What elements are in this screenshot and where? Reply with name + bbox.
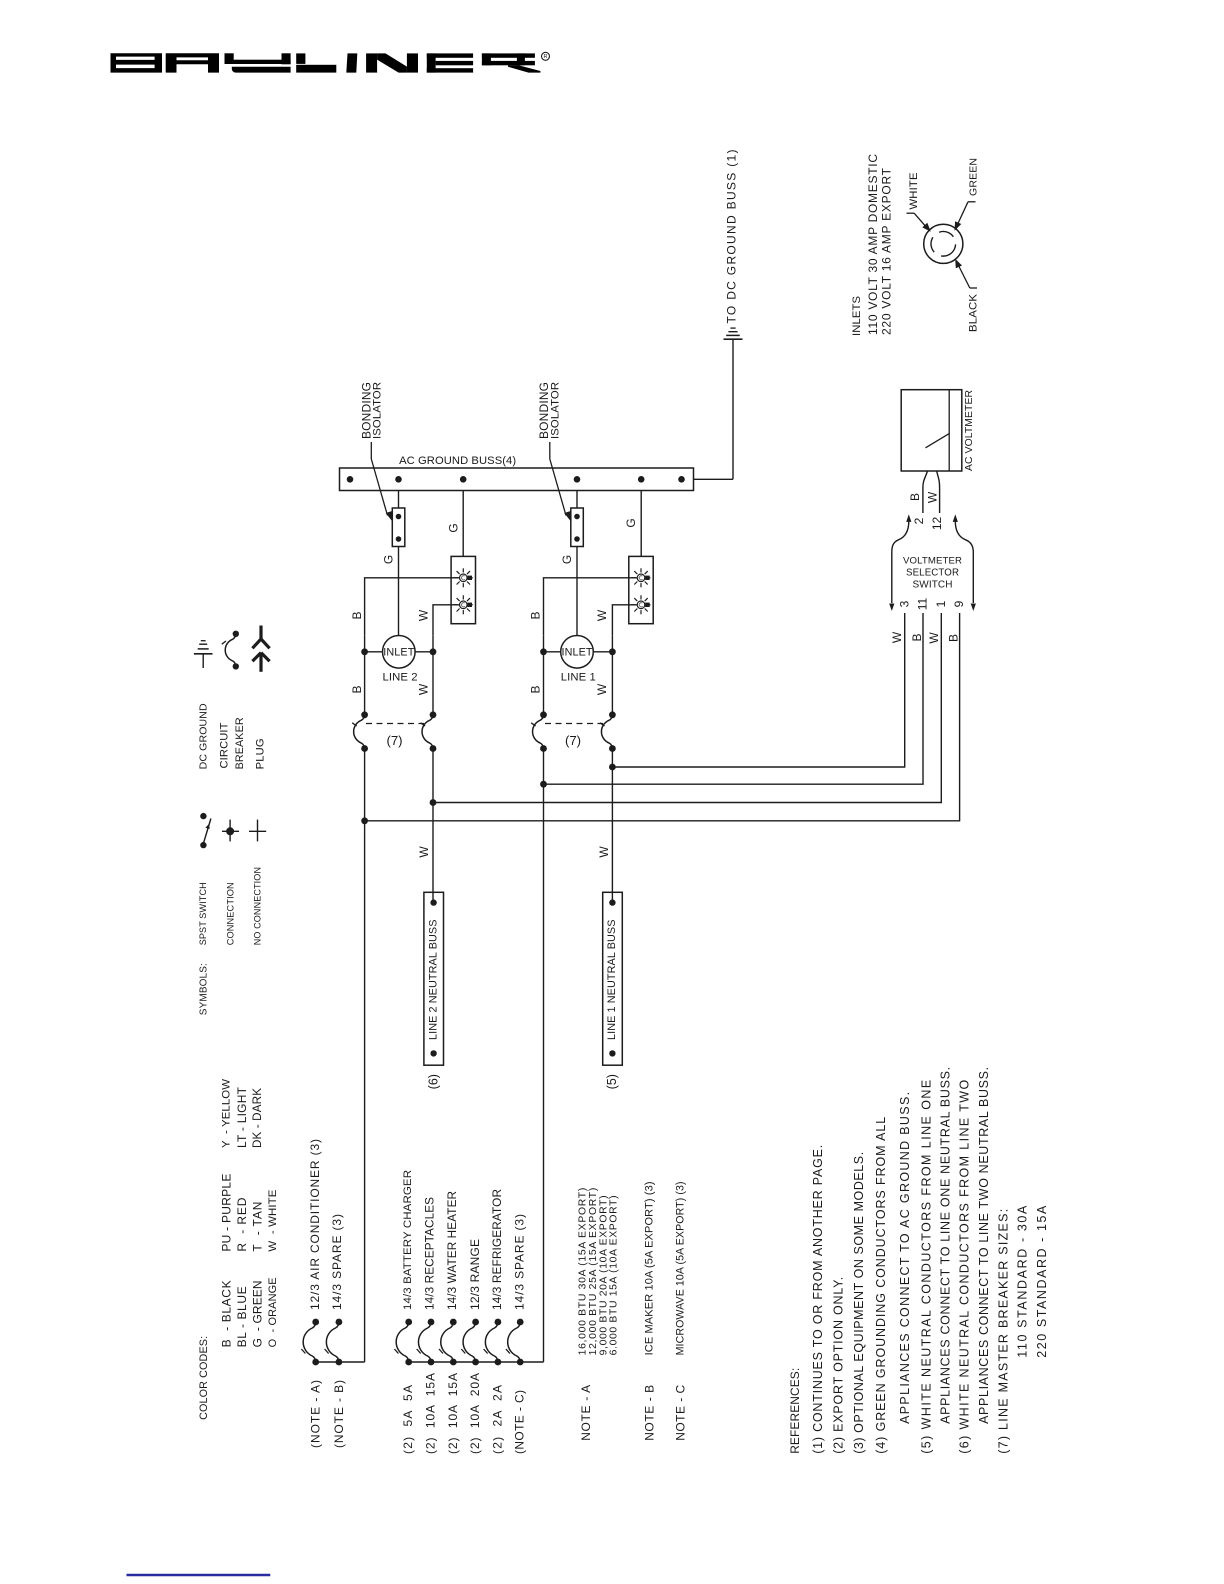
- wire buss to isolator (line 1): [576, 491, 578, 509]
- breaker tie (dashed, line 1): [545, 723, 603, 725]
- wire W line 1 to breaker: [611, 635, 613, 715]
- svg-text:MICROWAVE 10A (5A EXPORT) (3): MICROWAVE 10A (5A EXPORT) (3): [674, 1181, 686, 1355]
- svg-text:APPLIANCES CONNECT TO LINE TWO: APPLIANCES CONNECT TO LINE TWO NEUTRAL B…: [977, 1067, 991, 1424]
- group 1 feed bar from B line 2: [316, 1361, 365, 1363]
- junction W2 to voltmeter pin 1: [430, 799, 437, 806]
- legend circuit breaker symbol: [222, 631, 239, 670]
- logo registered trademark: [542, 52, 550, 60]
- svg-text:SELECTOR: SELECTOR: [906, 568, 959, 579]
- bonding isolator (line 1): [571, 508, 584, 547]
- wire B line 2 vertical to panel feed: [364, 749, 366, 1363]
- circuit breaker air conditioner: [301, 1319, 319, 1366]
- svg-text:R: R: [544, 54, 548, 60]
- svg-text:W: W: [417, 846, 431, 858]
- svg-text:TO DC GROUND BUSS (1): TO DC GROUND BUSS (1): [725, 150, 739, 324]
- wire inlet stubs line 2 with junctions: [361, 648, 436, 655]
- legend label CIRCUIT BREAKER: [218, 717, 245, 769]
- wire pin 9 horizontal: [365, 613, 960, 821]
- svg-text:W - WHITE: W - WHITE: [267, 1189, 279, 1251]
- svg-text:B: B: [350, 685, 364, 693]
- svg-text:APPLIANCES CONNECT TO AC GROUN: APPLIANCES CONNECT TO AC GROUND BUSS.: [898, 1092, 912, 1424]
- label BONDING ISOLATOR (line 1): [537, 382, 561, 439]
- wire W line 1 top (to lamp): [612, 605, 637, 636]
- svg-text:14/3 WATER HEATER: 14/3 WATER HEATER: [446, 1191, 459, 1310]
- svg-text:LT - LIGHT: LT - LIGHT: [235, 1086, 249, 1148]
- svg-text:Y - YELLOW: Y - YELLOW: [220, 1079, 232, 1148]
- lamp L1 (line 2): [454, 568, 473, 587]
- wire voltmeter terminal B: [923, 471, 928, 513]
- svg-text:11: 11: [916, 597, 930, 610]
- lamp L2 (line 2): [454, 595, 473, 614]
- svg-text:B: B: [350, 611, 364, 619]
- svg-text:(2) 10A 15A: (2) 10A 15A: [446, 1373, 460, 1454]
- svg-text:14/3 BATTERY CHARGER: 14/3 BATTERY CHARGER: [402, 1170, 414, 1310]
- wire to DC ground buss: [732, 339, 734, 479]
- svg-text:ISOLATOR: ISOLATOR: [372, 382, 384, 439]
- circuit breaker range: [461, 1319, 479, 1366]
- svg-text:NO CONNECTION: NO CONNECTION: [253, 867, 263, 945]
- svg-text:INLETS: INLETS: [851, 296, 863, 336]
- svg-text:WHITE: WHITE: [908, 172, 920, 209]
- svg-text:(NOTE - C): (NOTE - C): [513, 1390, 527, 1454]
- wire W line 2 top (to lamp): [433, 605, 459, 636]
- svg-text:(7) LINE MASTER BREAKER SIZES:: (7) LINE MASTER BREAKER SIZES:: [996, 1209, 1010, 1454]
- label WHITE with leader: [907, 172, 931, 232]
- svg-text:SPST SWITCH: SPST SWITCH: [198, 882, 208, 945]
- svg-text:(NOTE - B): (NOTE - B): [332, 1380, 346, 1448]
- svg-text:NOTE - C: NOTE - C: [673, 1384, 687, 1440]
- leader arrow to isolator (line 2): [371, 442, 392, 521]
- wire W line 2 vertical to neutral buss 2: [432, 749, 434, 903]
- svg-text:12/3 RANGE: 12/3 RANGE: [468, 1239, 482, 1310]
- wire inlet stubs line 1 with junctions: [540, 648, 616, 655]
- svg-text:R - RED: R - RED: [235, 1197, 249, 1251]
- svg-text:T - TAN: T - TAN: [250, 1202, 264, 1252]
- DC ground symbol (to DC ground buss): [724, 328, 743, 339]
- svg-text:G: G: [381, 555, 395, 564]
- circuit breaker refrigerator: [484, 1319, 502, 1366]
- references block: [788, 1067, 1049, 1454]
- svg-text:W: W: [890, 631, 904, 643]
- svg-text:ICE MAKER 10A (5A EXPORT) (3): ICE MAKER 10A (5A EXPORT) (3): [643, 1181, 655, 1355]
- legend DC ground symbol: [194, 641, 213, 668]
- svg-text:W: W: [595, 683, 609, 695]
- svg-text:G: G: [447, 523, 461, 532]
- breaker tie (dashed, line 2): [366, 723, 424, 725]
- wire buss to lamp box line 1, G: [640, 491, 642, 557]
- svg-text:BREAKER: BREAKER: [234, 717, 246, 769]
- color code row B/PU/Y: [219, 1079, 233, 1348]
- lamp box line 2: [451, 556, 475, 623]
- wire isolator to inlet line 2, G: [398, 547, 400, 636]
- svg-text:1: 1: [934, 600, 948, 607]
- legend plug symbol: [252, 626, 269, 672]
- svg-text:110 STANDARD - 30A: 110 STANDARD - 30A: [1015, 1205, 1029, 1358]
- svg-text:(6) WHITE NEUTRAL CONDUCTORS F: (6) WHITE NEUTRAL CONDUCTORS FROM LINE T…: [958, 1080, 972, 1454]
- svg-text:B: B: [908, 493, 922, 501]
- circuit breaker spare (group 2): [506, 1319, 524, 1366]
- svg-text:14/3 REFRIGERATOR: 14/3 REFRIGERATOR: [490, 1189, 504, 1310]
- circuit breaker CB-L1B: [531, 711, 547, 752]
- label BLACK with leader: [955, 259, 979, 332]
- circuit breaker spare (group 1): [325, 1319, 343, 1366]
- legend connection symbol: [222, 820, 239, 842]
- bonding isolator (line 2): [392, 508, 405, 547]
- svg-text:(2) EXPORT OPTION ONLY.: (2) EXPORT OPTION ONLY.: [832, 1277, 846, 1454]
- wire pin 3 horizontal: [612, 613, 904, 767]
- circuit breaker CB-L2W: [421, 711, 437, 752]
- svg-text:DC GROUND: DC GROUND: [198, 703, 210, 769]
- Bayliner logo wordmark: [111, 53, 541, 72]
- svg-text:(6): (6): [426, 1074, 440, 1089]
- svg-text:BLACK: BLACK: [968, 294, 980, 332]
- svg-text:2: 2: [912, 517, 926, 524]
- line 2 neutral buss: [424, 892, 444, 1065]
- wire B line 1 to breaker: [543, 635, 545, 715]
- svg-text:DK - DARK: DK - DARK: [251, 1088, 264, 1148]
- note A btu table: [578, 1188, 620, 1356]
- svg-text:3: 3: [898, 600, 912, 607]
- svg-text:14/3 RECEPTACLES: 14/3 RECEPTACLES: [424, 1197, 437, 1310]
- svg-text:AC GROUND BUSS(4): AC GROUND BUSS(4): [399, 455, 516, 467]
- svg-text:G: G: [624, 518, 638, 527]
- junction B2 to voltmeter pin 9: [361, 817, 368, 824]
- svg-text:12: 12: [930, 517, 944, 531]
- inlet connector LINE 2: [383, 636, 416, 669]
- svg-text:O - ORANGE: O - ORANGE: [267, 1277, 279, 1347]
- decorative blue rule: [127, 1574, 271, 1576]
- svg-text:6.000 BTU 15A (10A EXPORT): 6.000 BTU 15A (10A EXPORT): [609, 1195, 620, 1355]
- svg-text:CIRCUIT: CIRCUIT: [218, 722, 230, 768]
- leader arrow to isolator (line 1): [550, 442, 571, 521]
- color code row BL/R/LT: [235, 1086, 249, 1347]
- svg-text:BL - BLUE: BL - BLUE: [235, 1286, 249, 1347]
- svg-text:INLET: INLET: [383, 647, 414, 659]
- svg-text:W: W: [925, 491, 939, 503]
- circuit breaker battery charger: [394, 1319, 412, 1366]
- svg-text:COLOR CODES:: COLOR CODES:: [198, 1336, 210, 1420]
- svg-text:W: W: [417, 609, 431, 621]
- circuit breaker water heater: [439, 1319, 457, 1366]
- svg-text:SWITCH: SWITCH: [913, 580, 953, 591]
- wire isolator to inlet line 1, G: [576, 547, 578, 636]
- svg-text:APPLIANCES CONNECT TO LINE ONE: APPLIANCES CONNECT TO LINE ONE NEUTRAL B…: [939, 1067, 953, 1424]
- svg-text:NOTE - A: NOTE - A: [579, 1385, 593, 1441]
- svg-text:(7): (7): [386, 733, 402, 748]
- label GREEN with leader: [955, 158, 980, 231]
- voltmeter selector switch S1 outline: [889, 514, 976, 611]
- svg-text:GREEN: GREEN: [968, 158, 980, 196]
- svg-text:ISOLATOR: ISOLATOR: [549, 382, 561, 439]
- svg-text:(5) WHITE NEUTRAL CONDUCTORS F: (5) WHITE NEUTRAL CONDUCTORS FROM LINE O…: [919, 1080, 933, 1454]
- inlets labels text: [851, 154, 894, 336]
- wire buss to lamp box line 2, G: [462, 491, 464, 557]
- svg-text:PLUG: PLUG: [255, 738, 267, 769]
- svg-text:14/3 SPARE (3): 14/3 SPARE (3): [330, 1214, 344, 1310]
- svg-text:B: B: [946, 634, 960, 642]
- inlet connector circle: [924, 224, 963, 263]
- svg-text:LINE 1 NEUTRAL BUSS: LINE 1 NEUTRAL BUSS: [606, 920, 618, 1041]
- svg-text:(2) 10A 20A: (2) 10A 20A: [468, 1373, 482, 1454]
- buss terminal dots: [347, 476, 685, 483]
- svg-text:(1) CONTINUES TO OR FROM ANOTH: (1) CONTINUES TO OR FROM ANOTHER PAGE.: [811, 1145, 825, 1454]
- svg-text:G: G: [560, 555, 574, 564]
- svg-text:W: W: [927, 632, 941, 644]
- line 1 neutral buss: [603, 892, 623, 1065]
- svg-text:B: B: [528, 685, 542, 693]
- svg-text:(5): (5): [605, 1074, 619, 1089]
- wire pin 11 horizontal: [544, 613, 924, 784]
- svg-text:G - GREEN: G - GREEN: [250, 1280, 264, 1347]
- group 2 feed bar from B line 1: [409, 1361, 544, 1363]
- circuit breaker CB-L1W: [600, 711, 616, 752]
- svg-text:NOTE - B: NOTE - B: [642, 1385, 656, 1441]
- legend no-connection symbol: [249, 820, 266, 842]
- junction B1 to voltmeter pin 11: [540, 781, 547, 788]
- circuit breaker CB-L2B: [352, 711, 368, 752]
- wire B line 1 vertical to panel feed: [543, 749, 545, 1363]
- lamp L4 (line 1): [632, 595, 651, 614]
- wire buss to isolator (line 2): [398, 491, 400, 509]
- legend SPST switch symbol: [200, 813, 211, 848]
- svg-text:(4) GREEN GROUNDING CONDUCTORS: (4) GREEN GROUNDING CONDUCTORS FROM ALL: [874, 1117, 888, 1454]
- svg-text:220 VOLT 16 AMP EXPORT: 220 VOLT 16 AMP EXPORT: [880, 167, 894, 335]
- wire B line 2 top (to lamp): [365, 578, 460, 636]
- junction W1 to voltmeter pin 3: [609, 764, 616, 771]
- svg-text:220 STANDARD - 15A: 220 STANDARD - 15A: [1035, 1205, 1049, 1358]
- wire W line 1 vertical to neutral buss 1: [611, 749, 613, 903]
- circuit breaker receptacles: [417, 1319, 435, 1366]
- svg-text:B - BLACK: B - BLACK: [219, 1280, 233, 1347]
- label VOLTMETER SELECTOR SWITCH: [903, 556, 962, 591]
- AC ground buss bar: [340, 468, 694, 491]
- svg-text:W: W: [597, 846, 611, 858]
- svg-text:(7): (7): [565, 733, 581, 748]
- svg-text:W: W: [595, 609, 609, 621]
- inlet connector LINE 1: [561, 636, 594, 669]
- svg-text:14/3 SPARE (3): 14/3 SPARE (3): [512, 1214, 526, 1310]
- svg-text:9: 9: [952, 600, 966, 607]
- svg-text:LINE 2: LINE 2: [383, 672, 418, 684]
- lamp box line 1: [629, 556, 653, 623]
- wire voltmeter terminal W: [937, 471, 940, 513]
- svg-text:(2) 2A 2A: (2) 2A 2A: [490, 1385, 504, 1454]
- svg-text:AC VOLTMETER: AC VOLTMETER: [964, 390, 975, 471]
- svg-text:(3) OPTIONAL EQUIPMENT ON SOME: (3) OPTIONAL EQUIPMENT ON SOME MODELS.: [852, 1152, 866, 1454]
- AC voltmeter M1: [901, 390, 962, 471]
- svg-text:CONNECTION: CONNECTION: [226, 882, 236, 945]
- svg-text:12/3 AIR CONDITIONER (3): 12/3 AIR CONDITIONER (3): [308, 1139, 322, 1310]
- svg-text:PU - PURPLE: PU - PURPLE: [219, 1174, 233, 1252]
- svg-text:(2) 10A 15A: (2) 10A 15A: [424, 1373, 438, 1454]
- wire W line 2 to breaker: [432, 635, 434, 715]
- svg-text:110 VOLT 30 AMP DOMESTIC: 110 VOLT 30 AMP DOMESTIC: [866, 154, 880, 335]
- svg-text:B: B: [528, 611, 542, 619]
- svg-text:(2) 5A 5A: (2) 5A 5A: [401, 1385, 415, 1454]
- svg-text:LINE 1: LINE 1: [561, 672, 596, 684]
- svg-text:SYMBOLS:: SYMBOLS:: [198, 963, 209, 1015]
- svg-text:B: B: [910, 633, 924, 641]
- svg-text:LINE 2 NEUTRAL BUSS: LINE 2 NEUTRAL BUSS: [427, 920, 439, 1041]
- svg-text:REFERENCES:: REFERENCES:: [788, 1368, 802, 1454]
- svg-text:W: W: [417, 683, 431, 695]
- svg-text:VOLTMETER: VOLTMETER: [903, 556, 962, 567]
- lamp L3 (line 1): [632, 568, 651, 587]
- color code row G/T/DK: [250, 1088, 264, 1348]
- svg-text:(NOTE - A): (NOTE - A): [309, 1380, 323, 1448]
- wire pin 1 horizontal: [433, 613, 941, 803]
- svg-text:INLET: INLET: [562, 647, 593, 659]
- wire B line 1 top (to lamp): [544, 578, 638, 636]
- label BONDING ISOLATOR (line 2): [359, 382, 383, 439]
- wire B line 2 to breaker: [364, 635, 366, 715]
- color code row O/W: [267, 1189, 279, 1347]
- wire buss to DC ground riser: [694, 478, 734, 480]
